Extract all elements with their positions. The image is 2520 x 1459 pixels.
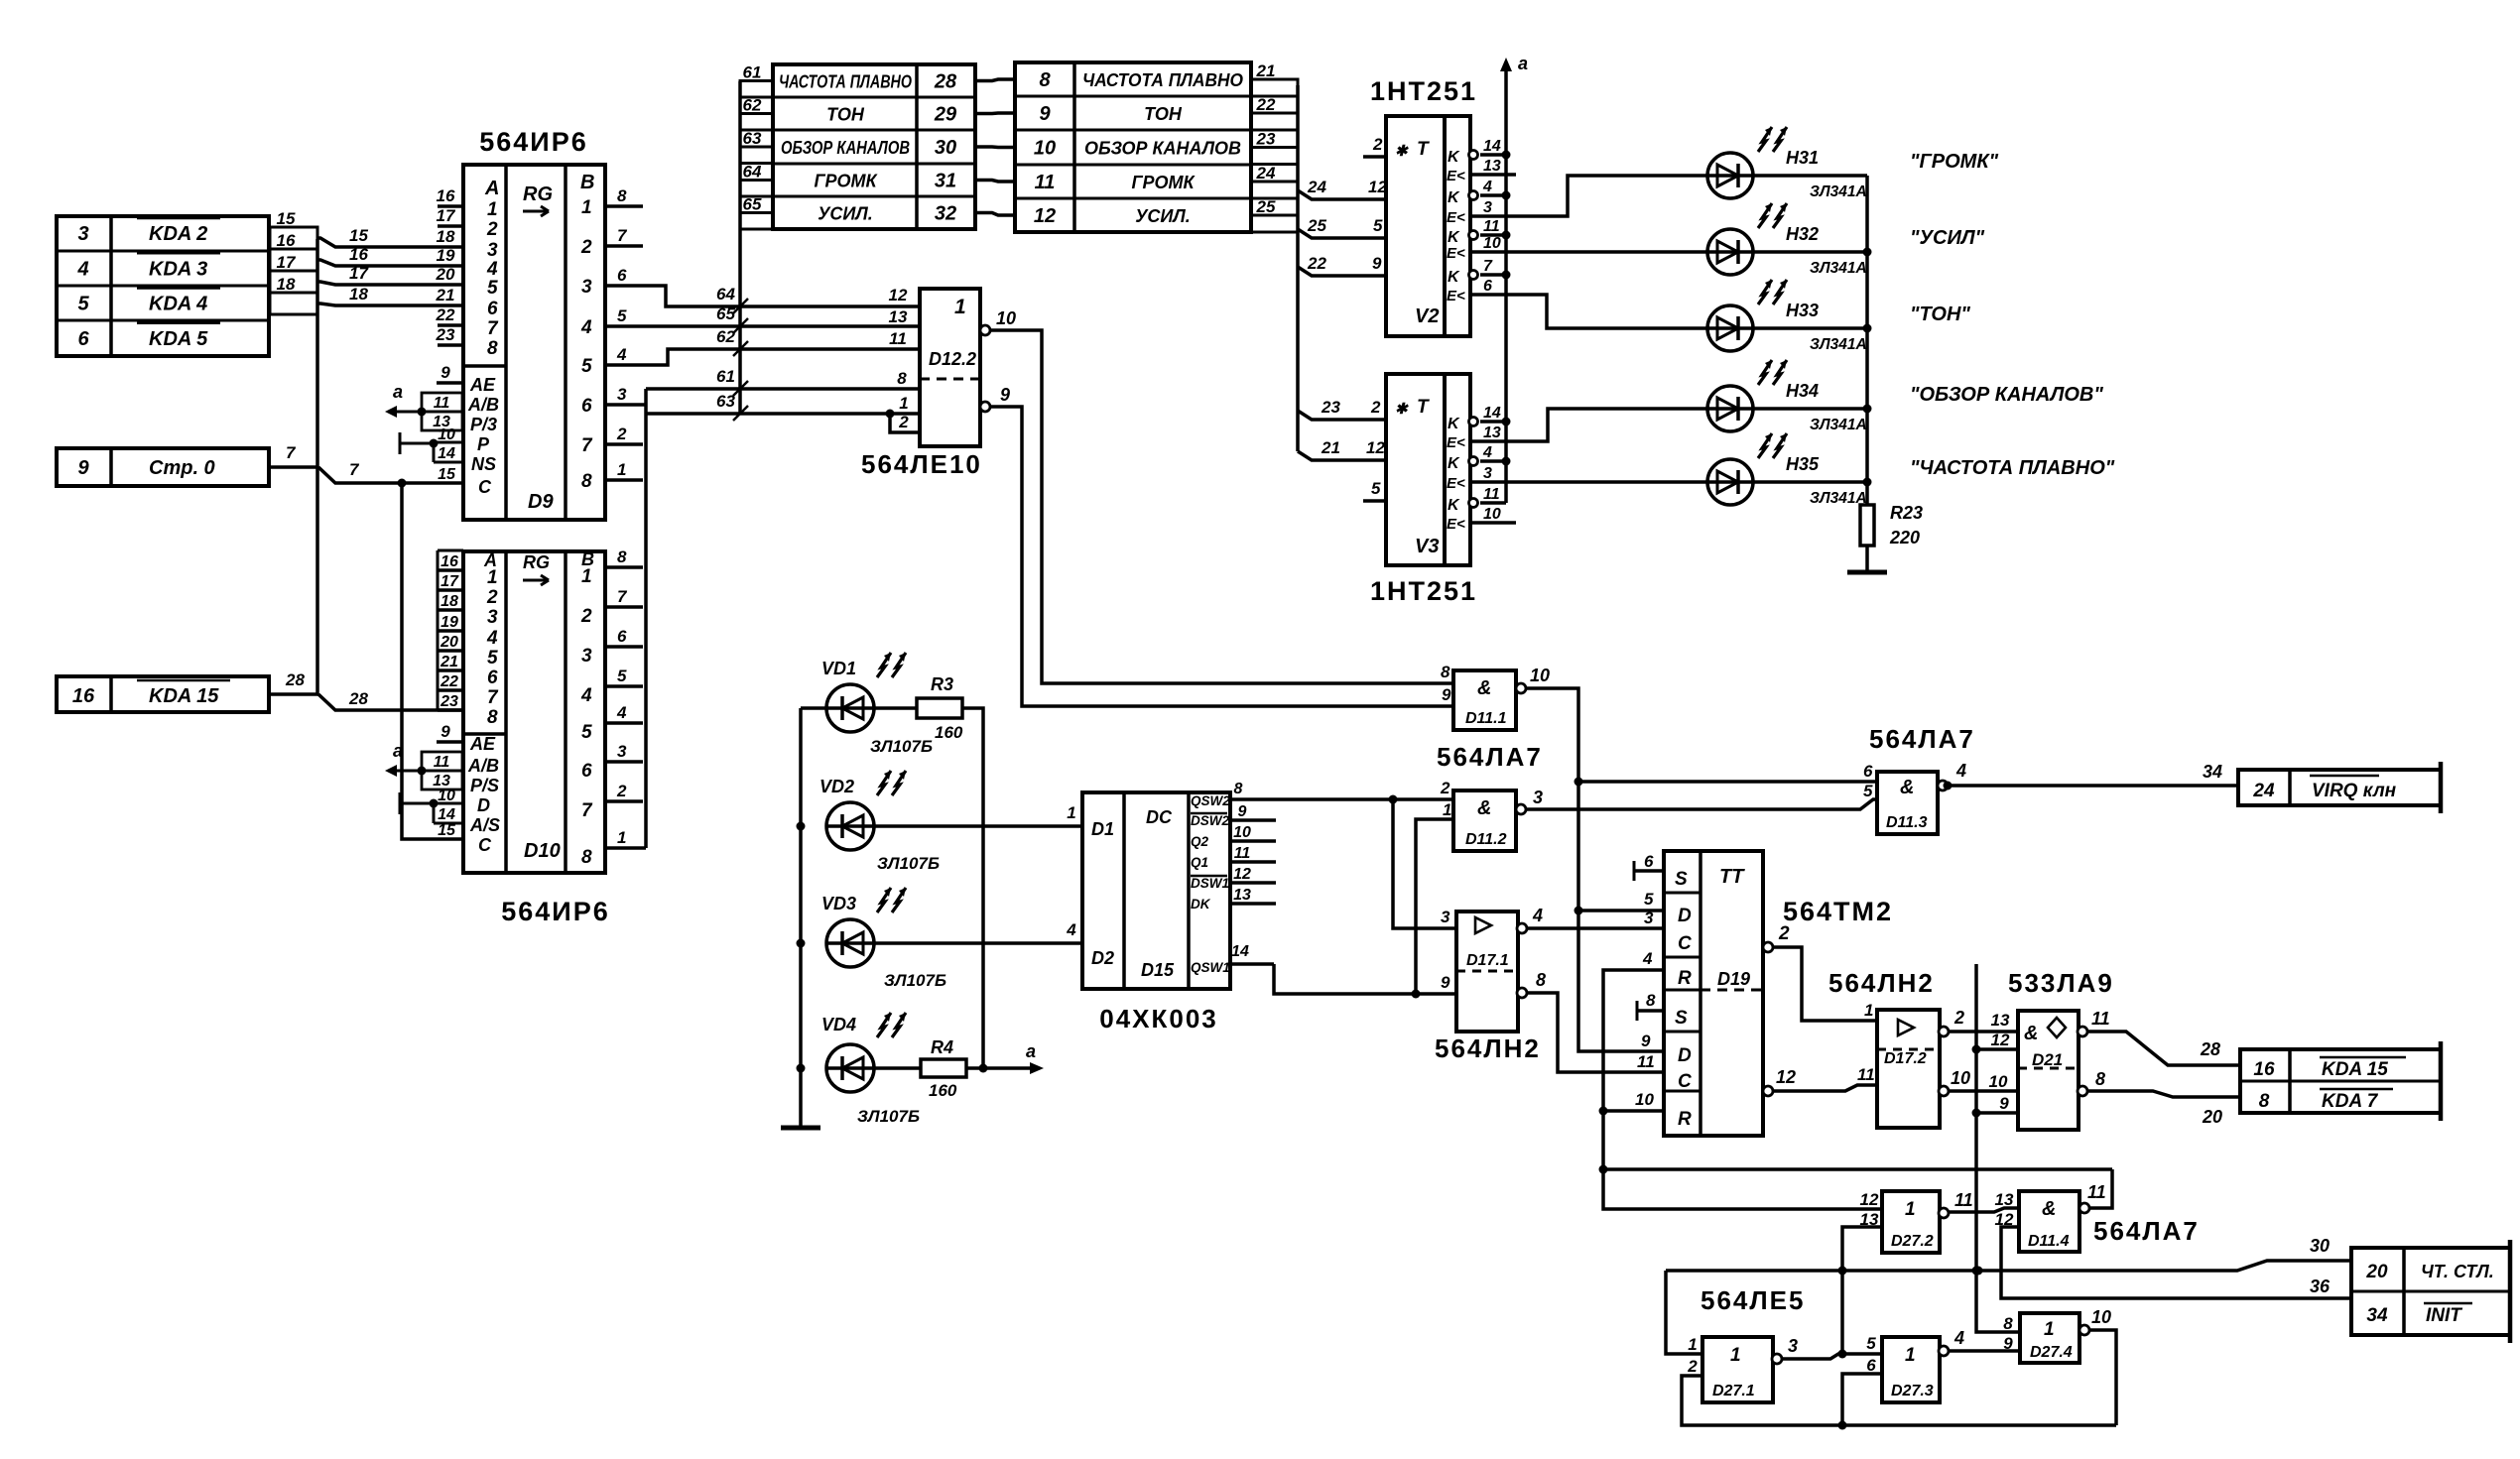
svg-text:E<: E< <box>1447 168 1465 184</box>
LED H35 ZL341A <box>1707 459 1753 505</box>
svg-text:6: 6 <box>1863 762 1873 781</box>
svg-text:8: 8 <box>617 186 627 205</box>
wire D27.2 pin13 elbow <box>1842 1227 1882 1354</box>
D9 output stubs pins 8-1 <box>605 204 643 208</box>
svg-text:564ЛА7: 564ЛА7 <box>1869 724 1975 754</box>
svg-text:12: 12 <box>1034 205 1056 227</box>
svg-text:AE: AE <box>469 734 496 754</box>
wire V2 E10 to LED H32 <box>1470 250 1867 254</box>
svg-text:1: 1 <box>1905 1345 1916 1366</box>
svg-text:10: 10 <box>1233 824 1251 841</box>
svg-text:12: 12 <box>1776 1067 1796 1087</box>
svg-text:564ЛА7: 564ЛА7 <box>1437 742 1543 772</box>
svg-text:6: 6 <box>1866 1356 1876 1375</box>
svg-text:31: 31 <box>935 171 956 192</box>
svg-text:RG: RG <box>523 552 550 572</box>
svg-text:62: 62 <box>743 96 762 115</box>
svg-text:2: 2 <box>580 606 592 627</box>
wire to D11.3 pin6 <box>1578 780 1877 784</box>
node QSW2 junction <box>1389 795 1398 804</box>
svg-text:1: 1 <box>487 199 498 220</box>
wire D17.1 out4 to D19 pin3 <box>1527 926 1664 930</box>
wire R4 to net a arrow <box>966 1066 1036 1070</box>
svg-text:✱: ✱ <box>1395 143 1409 160</box>
svg-text:"ТОН": "ТОН" <box>1910 304 1970 325</box>
svg-text:160: 160 <box>929 1081 957 1100</box>
svg-text:11: 11 <box>2091 1009 2110 1029</box>
svg-text:✱: ✱ <box>1395 401 1409 418</box>
svg-text:16: 16 <box>72 685 95 707</box>
svg-text:Стр. 0: Стр. 0 <box>149 457 215 479</box>
svg-text:D11.4: D11.4 <box>2028 1233 2070 1250</box>
wire D17.2 out10 to D21 pin10 <box>1949 1089 2018 1093</box>
svg-text:9: 9 <box>1999 1094 2009 1113</box>
svg-text:6: 6 <box>581 761 592 782</box>
svg-text:16: 16 <box>437 186 455 205</box>
svg-text:H32: H32 <box>1786 224 1819 244</box>
svg-text:13: 13 <box>889 307 908 326</box>
svg-text:QSW1: QSW1 <box>1191 960 1230 975</box>
svg-text:ТОН: ТОН <box>1144 104 1183 124</box>
svg-text:8: 8 <box>1039 69 1051 91</box>
wire D27.3 pin6 feedback <box>1842 1374 1882 1425</box>
svg-text:4: 4 <box>580 685 592 706</box>
svg-text:3: 3 <box>1441 908 1450 926</box>
svg-text:&: & <box>2042 1198 2056 1220</box>
svg-text:11: 11 <box>1637 1052 1655 1071</box>
svg-text:9: 9 <box>2003 1334 2013 1353</box>
svg-text:A/B: A/B <box>467 756 499 776</box>
svg-text:4: 4 <box>1066 920 1076 939</box>
svg-text:"УСИЛ": "УСИЛ" <box>1910 227 1985 249</box>
connector group line left <box>315 239 319 694</box>
svg-text:30: 30 <box>2310 1236 2330 1256</box>
svg-text:7: 7 <box>617 226 628 245</box>
svg-text:8: 8 <box>1234 781 1243 797</box>
svg-text:18: 18 <box>277 275 296 294</box>
svg-text:9: 9 <box>441 722 450 741</box>
svg-text:63: 63 <box>743 129 762 148</box>
gate D12.2 564LE10 <box>920 289 980 446</box>
svg-text:ЗЛ107Б: ЗЛ107Б <box>870 737 933 756</box>
svg-text:ЗЛ341А: ЗЛ341А <box>1810 260 1867 277</box>
svg-text:15: 15 <box>277 209 296 228</box>
svg-text:3: 3 <box>1483 199 1492 216</box>
resistor R4 160 <box>874 1066 921 1070</box>
svg-text:23: 23 <box>440 693 458 710</box>
register D10 564IR6 <box>463 551 605 873</box>
svg-text:10: 10 <box>438 788 455 804</box>
gate D11.2 564LA7 <box>1453 790 1516 851</box>
V3 emitter stub pin10 <box>1470 521 1516 525</box>
svg-text:K: K <box>1448 229 1460 246</box>
svg-text:12: 12 <box>1860 1190 1879 1209</box>
svg-text:T: T <box>1417 139 1430 160</box>
svg-text:564ЛА7: 564ЛА7 <box>2093 1216 2200 1246</box>
svg-text:15: 15 <box>349 226 368 245</box>
connector CHT STL INIT <box>2351 1248 2510 1335</box>
wire V3 E13 to LED H34 <box>1470 409 1867 441</box>
wires between tables <box>975 79 1015 81</box>
svg-text:5: 5 <box>617 306 627 325</box>
svg-text:564ЛН2: 564ЛН2 <box>1435 1033 1541 1063</box>
svg-text:A/B: A/B <box>467 395 499 415</box>
svg-text:564ИР6: 564ИР6 <box>479 127 587 157</box>
svg-text:36: 36 <box>2310 1277 2331 1296</box>
svg-text:5: 5 <box>581 356 592 377</box>
svg-text:D17.2: D17.2 <box>1884 1050 1927 1067</box>
pin boxes 61-65 <box>740 81 773 98</box>
svg-text:D21: D21 <box>2032 1050 2063 1069</box>
svg-text:3: 3 <box>1644 909 1654 927</box>
svg-text:10: 10 <box>1635 1090 1654 1109</box>
svg-text:2: 2 <box>1953 1008 1964 1028</box>
D15 output stubs 9-13 <box>1230 818 1276 822</box>
LED H33 ZL341A <box>1707 305 1753 351</box>
connector X1 rows KDA2-KDA5 <box>57 216 269 356</box>
svg-text:a: a <box>1026 1041 1036 1061</box>
svg-text:5: 5 <box>1866 1334 1876 1353</box>
node QSW1 junction <box>1412 990 1421 999</box>
svg-text:E<: E< <box>1447 516 1465 533</box>
svg-text:6: 6 <box>77 328 89 350</box>
connector KDA15 KDA7 right <box>2240 1049 2441 1113</box>
resistor R23 220 <box>1860 505 1874 546</box>
wire 22 to V2 pin9 <box>1298 267 1363 276</box>
svg-text:8: 8 <box>1441 663 1450 681</box>
node wire63 junction <box>886 410 895 419</box>
svg-text:24: 24 <box>2252 781 2275 801</box>
svg-text:D10: D10 <box>524 840 561 862</box>
wire D19 out12 to D17.2 pin11 <box>1773 1085 1877 1091</box>
svg-text:5: 5 <box>77 294 89 315</box>
gate D27.1 564LE5 <box>1702 1337 1773 1402</box>
svg-text:4: 4 <box>486 628 498 649</box>
net a arrow at D9 <box>393 411 422 414</box>
svg-text:30: 30 <box>935 137 956 159</box>
svg-text:ЧТ. СТЛ.: ЧТ. СТЛ. <box>2421 1262 2494 1281</box>
svg-text:18: 18 <box>437 227 455 246</box>
svg-text:4: 4 <box>1532 906 1543 925</box>
svg-text:64: 64 <box>743 163 762 182</box>
svg-text:6: 6 <box>581 396 592 417</box>
wire D21 out8 to connector KDA7 <box>2087 1091 2240 1097</box>
wire D27.1 pin1 elbow <box>1666 1271 1702 1354</box>
wire VD2 to D15 pin1 <box>874 824 1082 828</box>
group line right bus <box>1296 85 1300 451</box>
wire KDA4 to D9 pin 20 <box>317 282 464 285</box>
svg-text:23: 23 <box>1321 398 1340 417</box>
signal table left <box>773 64 975 229</box>
svg-text:7: 7 <box>617 587 628 606</box>
wire VD3 to D15 pin4 <box>874 941 1082 945</box>
wire D9.B6 to D10.B8 vertical <box>644 389 648 848</box>
svg-text:ОБЗОР КАНАЛОВ: ОБЗОР КАНАЛОВ <box>781 138 910 158</box>
svg-text:10: 10 <box>1530 666 1550 685</box>
wire D27.3 out4 to D27.4 pin9 <box>1949 1349 2020 1353</box>
svg-text:K: K <box>1448 416 1460 432</box>
ground <box>1847 570 1887 575</box>
svg-text:4: 4 <box>76 258 88 280</box>
svg-text:H33: H33 <box>1786 301 1819 320</box>
svg-text:D9: D9 <box>528 491 554 513</box>
wire D27.1 pin2 feedback <box>1682 1376 2116 1425</box>
svg-text:VD4: VD4 <box>821 1015 856 1034</box>
svg-text:8: 8 <box>2003 1314 2013 1333</box>
D19 output 12 <box>1763 1086 1773 1096</box>
svg-text:&: & <box>1477 677 1491 699</box>
wire 61 D9.B6 to D12.2 <box>605 403 646 407</box>
svg-text:9: 9 <box>1641 1032 1651 1050</box>
wire 21 to V3 pin12 <box>1298 451 1386 460</box>
connector X2 Str.0 <box>57 448 269 486</box>
wire D21 out11 to connector KDA15 <box>2087 1032 2240 1065</box>
svg-text:DSW2: DSW2 <box>1191 813 1229 828</box>
svg-text:3: 3 <box>1483 465 1492 482</box>
wire KDA15 to D10 pin 23 <box>269 692 318 696</box>
svg-text:13: 13 <box>1995 1190 2014 1209</box>
svg-text:ЗЛ341А: ЗЛ341А <box>1810 417 1867 433</box>
svg-text:12: 12 <box>1991 1031 2010 1049</box>
svg-text:VD1: VD1 <box>821 659 856 678</box>
svg-text:8: 8 <box>581 847 592 868</box>
wire D17.1 out8 to D19 pin11 <box>1527 993 1664 1072</box>
svg-text:4: 4 <box>1955 761 1966 781</box>
D19 pin8 S with level bar <box>1636 1001 1639 1021</box>
svg-text:8: 8 <box>1646 991 1656 1010</box>
svg-text:2: 2 <box>1372 135 1383 154</box>
svg-text:&: & <box>2024 1023 2038 1044</box>
connector X3 KDA15 <box>57 676 269 712</box>
svg-text:1: 1 <box>1905 1199 1916 1220</box>
wire 62 D9.B5 to D12.2 <box>605 349 920 365</box>
gate D11.3 564LA7 <box>1877 772 1938 834</box>
gate D12.2 output 9 <box>980 402 990 412</box>
D19 output 2 <box>1763 942 1773 952</box>
level symbol at D9 pins 10 14 <box>399 432 402 454</box>
svg-text:10: 10 <box>1483 235 1501 252</box>
svg-text:3: 3 <box>617 385 627 404</box>
svg-text:15: 15 <box>438 466 456 483</box>
D10 output stubs pins 8-1 <box>605 565 643 569</box>
svg-text:D2: D2 <box>1091 948 1114 968</box>
svg-text:160: 160 <box>935 723 963 742</box>
decoder D15 04XK003 <box>1082 792 1230 989</box>
svg-text:14: 14 <box>438 806 455 823</box>
LED VD3 ZL107B <box>826 919 874 967</box>
svg-text:7: 7 <box>487 687 499 708</box>
svg-text:5: 5 <box>617 667 627 685</box>
svg-text:17: 17 <box>349 264 369 283</box>
svg-text:533ЛА9: 533ЛА9 <box>2008 968 2114 998</box>
svg-text:8: 8 <box>2095 1069 2105 1089</box>
svg-text:16: 16 <box>441 553 458 570</box>
svg-text:2: 2 <box>1370 398 1381 417</box>
svg-text:11: 11 <box>1234 845 1251 862</box>
svg-text:4: 4 <box>580 317 592 338</box>
svg-text:K: K <box>1448 497 1460 514</box>
svg-text:DK: DK <box>1191 897 1211 912</box>
svg-text:28: 28 <box>285 670 305 689</box>
svg-text:ГРОМК: ГРОМК <box>1131 173 1196 192</box>
svg-text:10: 10 <box>1483 506 1501 523</box>
svg-text:2: 2 <box>616 782 627 800</box>
svg-text:7: 7 <box>581 800 593 821</box>
svg-text:"ЧАСТОТА ПЛАВНО": "ЧАСТОТА ПЛАВНО" <box>1910 457 2115 479</box>
svg-text:Q1: Q1 <box>1191 855 1208 870</box>
svg-text:5: 5 <box>1371 479 1381 498</box>
svg-text:16: 16 <box>349 245 368 264</box>
svg-text:D: D <box>1678 906 1692 926</box>
wire D17.2 out2 to D21 pin13 <box>1949 1030 2018 1033</box>
svg-text:D27.4: D27.4 <box>2030 1344 2073 1361</box>
svg-text:14: 14 <box>1483 138 1501 155</box>
svg-text:5: 5 <box>1373 216 1383 235</box>
svg-text:1: 1 <box>487 567 498 588</box>
svg-text:S: S <box>1675 869 1688 890</box>
gate D27.3 564LE5 <box>1882 1337 1940 1402</box>
svg-text:1: 1 <box>1864 1001 1873 1020</box>
svg-text:"ГРОМК": "ГРОМК" <box>1910 151 1999 173</box>
svg-text:1: 1 <box>617 828 626 847</box>
svg-text:29: 29 <box>934 104 957 126</box>
svg-text:1: 1 <box>581 566 592 587</box>
svg-text:C: C <box>478 835 492 855</box>
gate D27.2 564LE5 <box>1882 1191 1940 1253</box>
svg-text:1: 1 <box>617 460 626 479</box>
signal vertical to D21 and D27 <box>1976 964 2019 1332</box>
svg-text:1: 1 <box>1688 1335 1697 1354</box>
wire 25 to V2 pin5 <box>1298 229 1363 238</box>
svg-text:VIRQ клн: VIRQ клн <box>2312 781 2397 801</box>
net a arrow at D10 <box>393 770 422 773</box>
svg-text:3: 3 <box>581 277 592 298</box>
wire to D19 pin5 <box>1578 909 1664 912</box>
svg-text:11: 11 <box>1483 218 1500 235</box>
svg-text:K: K <box>1448 269 1460 286</box>
wire 1179 D19 R to D11.4 out <box>1603 1167 2112 1171</box>
svg-text:19: 19 <box>437 246 455 265</box>
inverter D17.1 564LN2 <box>1456 912 1518 1032</box>
svg-text:28: 28 <box>348 689 368 708</box>
wire V3 E3 to LED H35 <box>1470 480 1867 484</box>
wire 63 to D12.2 <box>646 412 890 416</box>
ground VD <box>781 1126 820 1131</box>
svg-text:8: 8 <box>617 547 627 566</box>
svg-text:18: 18 <box>441 593 458 610</box>
svg-text:23: 23 <box>1256 130 1276 149</box>
svg-text:9: 9 <box>1238 803 1247 820</box>
svg-text:61: 61 <box>743 63 762 82</box>
svg-text:4: 4 <box>1642 949 1653 968</box>
svg-text:3: 3 <box>77 223 88 245</box>
svg-text:9: 9 <box>1372 254 1382 273</box>
wire D11.4 pin12 to INIT <box>2001 1227 2351 1298</box>
D9 input stubs pins 16-23 <box>438 204 463 208</box>
svg-text:C: C <box>1678 1071 1692 1092</box>
wire Str.0 down to D10 C <box>402 483 464 839</box>
svg-text:ЗЛ107Б: ЗЛ107Б <box>877 854 940 873</box>
svg-text:a: a <box>393 741 403 761</box>
svg-text:28: 28 <box>934 71 957 93</box>
pin boxes 21-25 <box>1251 79 1298 96</box>
svg-text:УСИЛ.: УСИЛ. <box>1135 206 1191 226</box>
svg-text:ЗЛ341А: ЗЛ341А <box>1810 183 1867 200</box>
svg-text:D12.2: D12.2 <box>929 349 976 369</box>
svg-text:20: 20 <box>2365 1262 2388 1282</box>
svg-text:22: 22 <box>440 673 458 690</box>
svg-text:E<: E< <box>1447 288 1465 304</box>
svg-text:24: 24 <box>1307 178 1326 196</box>
svg-text:21: 21 <box>1256 61 1276 80</box>
svg-text:1: 1 <box>1443 800 1451 819</box>
svg-text:V2: V2 <box>1415 305 1439 327</box>
svg-text:&: & <box>1900 777 1914 798</box>
svg-text:K: K <box>1448 455 1460 472</box>
net a vertical line <box>1504 71 1508 503</box>
svg-text:5: 5 <box>487 648 498 669</box>
wire D27.4 out10 feedback <box>2089 1330 2116 1425</box>
svg-text:1: 1 <box>2044 1319 2055 1340</box>
svg-text:K: K <box>1448 189 1460 206</box>
signal table right <box>1015 62 1251 232</box>
svg-text:21: 21 <box>1321 438 1340 457</box>
svg-text:9: 9 <box>1000 385 1010 405</box>
wire D11.2 pin1 to QSW1 net <box>1416 819 1453 994</box>
svg-text:22: 22 <box>1307 254 1326 273</box>
svg-text:KDA 3: KDA 3 <box>149 258 207 280</box>
svg-text:11: 11 <box>889 329 907 348</box>
svg-text:a: a <box>1518 54 1528 73</box>
svg-text:R23: R23 <box>1890 503 1923 523</box>
svg-text:5: 5 <box>1644 890 1654 909</box>
svg-text:S: S <box>1675 1008 1688 1029</box>
wire KDA2 to D9 pin 18 <box>317 238 464 247</box>
wire 30 CHT STL <box>1666 1261 2351 1271</box>
wire QSW2 to D17.1 pin3 <box>1393 799 1456 928</box>
connector VIRQ kln <box>2238 770 2441 805</box>
svg-text:A/S: A/S <box>469 815 500 835</box>
svg-text:10: 10 <box>1034 138 1056 160</box>
svg-text:17: 17 <box>437 206 456 225</box>
wire D11.3 out4 to VIRQ <box>1951 784 2238 788</box>
svg-text:6: 6 <box>617 627 627 646</box>
svg-text:R: R <box>1678 1109 1692 1130</box>
svg-text:5: 5 <box>1863 782 1873 800</box>
wire 65 D9.B4 to D12.2 <box>605 324 920 328</box>
svg-text:1: 1 <box>954 296 966 318</box>
svg-text:K: K <box>1448 149 1460 166</box>
LED cathode bus <box>1865 176 1869 505</box>
svg-text:10: 10 <box>438 426 455 443</box>
svg-text:1: 1 <box>581 197 592 218</box>
wire 64 D9.B3 to D12.2 <box>605 286 920 306</box>
svg-text:64: 64 <box>716 285 735 304</box>
svg-text:4: 4 <box>486 259 498 280</box>
svg-text:564ЛЕ10: 564ЛЕ10 <box>861 449 982 479</box>
svg-text:61: 61 <box>716 367 735 386</box>
svg-text:564ЛЕ5: 564ЛЕ5 <box>1701 1285 1805 1315</box>
svg-text:E<: E< <box>1447 434 1465 451</box>
svg-text:18: 18 <box>349 285 368 304</box>
svg-text:7: 7 <box>349 460 360 479</box>
svg-text:21: 21 <box>440 654 458 670</box>
LED VD1 ZL107B <box>801 706 826 710</box>
inverter D17.2 564LN2 <box>1877 1010 1940 1128</box>
VD common line <box>799 708 803 1128</box>
svg-text:2: 2 <box>1687 1357 1698 1376</box>
svg-text:11: 11 <box>1035 172 1056 193</box>
